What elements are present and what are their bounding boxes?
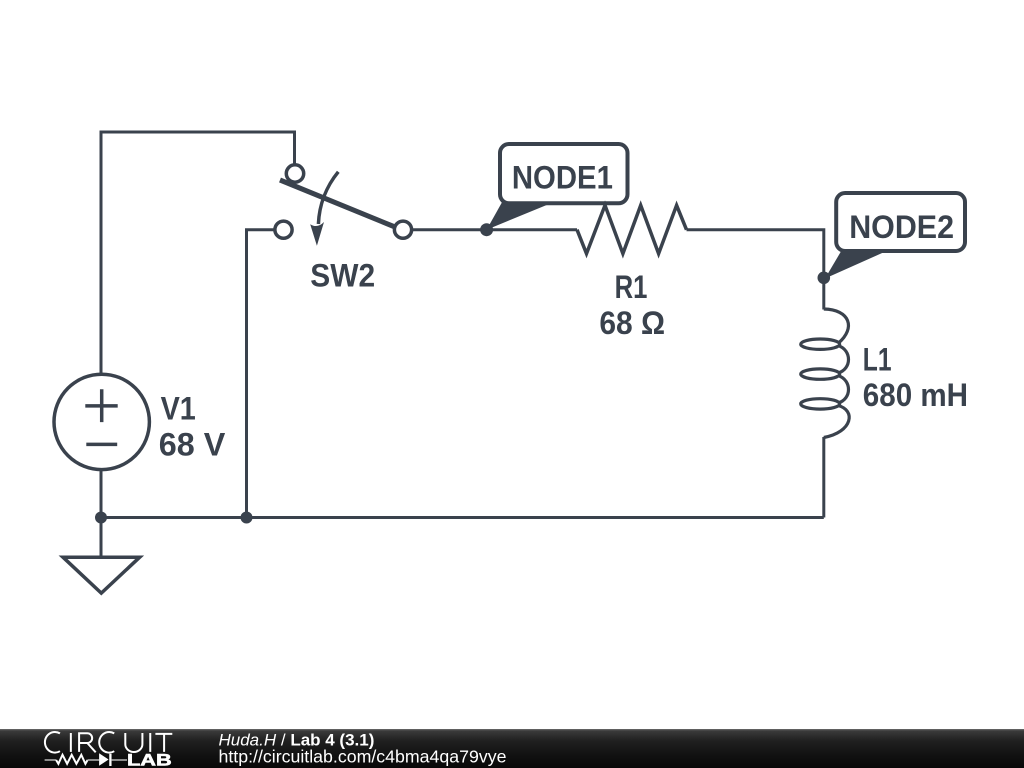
logo resistor zigzag — [56, 755, 88, 764]
CircuitLab logo word CIRCUIT: letter C — [45, 732, 60, 753]
voltage source V1 circle — [54, 374, 149, 469]
logo diode right lead — [112, 759, 127, 761]
wire from resistor right to NODE2 corner down to inductor — [687, 230, 824, 310]
svg-text:R1: R1 — [615, 269, 648, 305]
wire from switch lower-left terminal down to bottom rail — [247, 230, 277, 518]
footer bar — [0, 729, 1024, 768]
svg-text:http://circuitlab.com/c4bma4qa: http://circuitlab.com/c4bma4qa79vye — [219, 747, 507, 767]
switch SW2 motion arc — [318, 172, 338, 224]
switch SW2 top terminal circle — [286, 165, 303, 182]
logo letter U — [125, 733, 142, 752]
inductor L1 coil — [824, 309, 849, 343]
logo diode cathode bar — [109, 754, 111, 766]
logo letter C (second) — [99, 732, 114, 753]
switch SW2 arrowhead — [310, 222, 324, 246]
NODE2 callout box — [836, 193, 965, 251]
logo letter I — [70, 733, 72, 752]
logo letter T — [155, 734, 172, 752]
switch SW2 lever bar — [280, 180, 395, 227]
NODE2 callout tail — [825, 248, 890, 279]
resistor R1 zigzag — [577, 205, 687, 253]
svg-text:NODE2: NODE2 — [849, 209, 954, 245]
wire from V1 bottom to ground — [100, 468, 103, 557]
ground symbol — [63, 557, 140, 593]
switch SW2 right terminal circle — [394, 221, 411, 238]
V1 minus symbol — [86, 443, 117, 447]
node junction dot at NODE1 — [480, 223, 493, 236]
wire from V1 top to switch top terminal — [101, 132, 295, 376]
junction dot bottom rail at switch branch — [241, 512, 253, 524]
wire from switch right terminal to resistor — [411, 228, 577, 231]
junction dot bottom-left (ground node) — [95, 512, 107, 524]
svg-text:LAB: LAB — [127, 751, 172, 768]
NODE1 callout tail — [487, 201, 554, 230]
logo letter R — [79, 733, 96, 752]
bottom rail wire — [101, 516, 824, 519]
V1 plus symbol — [85, 389, 117, 422]
NODE1 callout box — [500, 144, 628, 203]
node junction dot at NODE2 — [818, 272, 831, 285]
svg-text:68 Ω: 68 Ω — [599, 305, 665, 341]
svg-text:L1: L1 — [863, 342, 892, 378]
switch SW2 lower-left terminal circle — [275, 221, 292, 238]
svg-text:V1: V1 — [161, 391, 196, 427]
logo letter I (second) — [149, 733, 151, 752]
logo lead between resistor and diode — [88, 759, 100, 761]
svg-text:680 mH: 680 mH — [863, 377, 968, 413]
wire from inductor bottom to bottom rail — [822, 437, 825, 518]
logo diode triangle — [99, 753, 109, 766]
svg-text:68 V: 68 V — [159, 427, 226, 463]
logo resistor left lead — [45, 759, 57, 761]
svg-text:NODE1: NODE1 — [512, 160, 613, 196]
svg-text:SW2: SW2 — [310, 257, 375, 293]
